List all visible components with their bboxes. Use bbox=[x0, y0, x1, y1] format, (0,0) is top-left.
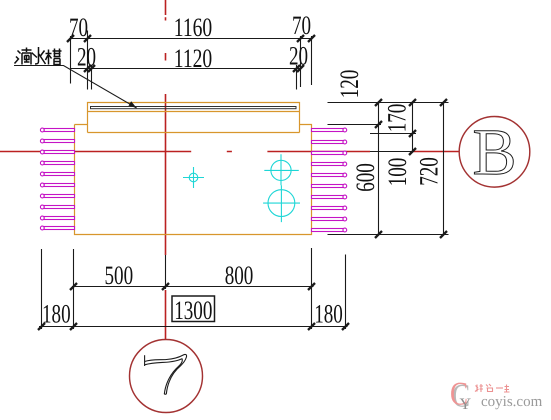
hatch tooth L2 bbox=[40, 139, 44, 143]
svg-text:70: 70 bbox=[292, 10, 311, 40]
hatch tooth R1 bbox=[343, 128, 347, 132]
label 滴水槽 strokes bbox=[15, 47, 62, 65]
hatch tooth L5 bbox=[40, 172, 44, 176]
1300 box bbox=[172, 296, 215, 322]
bottom dim texts bbox=[42, 260, 343, 329]
extension lines top bbox=[71, 31, 312, 90]
hatch tooth L8 bbox=[40, 205, 44, 209]
dim texts top bbox=[69, 10, 311, 73]
svg-text:120: 120 bbox=[334, 70, 364, 99]
svg-text:70: 70 bbox=[69, 12, 88, 42]
svg-text:20: 20 bbox=[289, 41, 308, 71]
letter B (outline) bbox=[472, 116, 516, 189]
hatch tooth L4 bbox=[40, 161, 44, 165]
hatch tooth L3 bbox=[40, 150, 44, 154]
numeral 7 (outline) bbox=[145, 354, 187, 394]
svg-text:720: 720 bbox=[414, 157, 444, 186]
svg-text:B: B bbox=[472, 116, 516, 189]
leader arrowhead bbox=[129, 101, 137, 108]
hatch tooth R7 bbox=[343, 195, 347, 199]
hatch tooth L10 bbox=[40, 226, 44, 230]
hatch tooth R9 bbox=[343, 217, 347, 221]
hatch tooth R3 bbox=[343, 151, 347, 155]
hatch tooth R4 bbox=[343, 162, 347, 166]
body outline (orange) bbox=[75, 125, 312, 235]
svg-text:1160: 1160 bbox=[174, 12, 213, 42]
svg-text:170: 170 bbox=[382, 104, 412, 133]
svg-text:180: 180 bbox=[314, 299, 343, 329]
svg-text:1120: 1120 bbox=[174, 43, 213, 73]
target symbol small (cyan) bbox=[183, 167, 204, 188]
1300 text bbox=[174, 295, 212, 325]
ticks top dims bbox=[67, 35, 315, 72]
right dim texts (rotated) bbox=[334, 70, 444, 192]
hatch tooth R5 bbox=[343, 173, 347, 177]
bottom dim line 2 (180|1300|180) bbox=[39, 326, 348, 328]
hatch tooth L9 bbox=[40, 216, 44, 220]
hatch tooth R6 bbox=[343, 184, 347, 188]
hatch teeth right (magenta) bbox=[312, 128, 347, 232]
svg-text:500: 500 bbox=[104, 260, 133, 290]
bottom dim line 1 (500|800) bbox=[72, 286, 314, 288]
hatch tooth L6 bbox=[40, 183, 44, 187]
hatch tooth L1 bbox=[40, 128, 44, 132]
leader 滴水槽 (text drawn as strokes) bbox=[14, 66, 137, 109]
bottom extension lines bbox=[42, 248, 346, 329]
hatch tooth R8 bbox=[343, 206, 347, 210]
drip groove (dark double line) bbox=[91, 107, 297, 109]
hatch tooth L7 bbox=[40, 194, 44, 198]
svg-text:180: 180 bbox=[42, 299, 71, 329]
char 槽 bbox=[46, 50, 52, 65]
right extension lines bbox=[328, 103, 449, 235]
char 滴 bbox=[15, 51, 21, 64]
hole circle 2 (cyan) bbox=[263, 185, 300, 222]
watermark 建筑一生 (pink strokes) bbox=[475, 384, 510, 392]
dim line top 2 (20|1120|20) bbox=[71, 68, 301, 70]
ticks bottom dims bbox=[38, 283, 349, 330]
hatch teeth left (magenta) bbox=[40, 128, 74, 230]
ticks right dims bbox=[375, 99, 447, 238]
centerline horizontal (red, dashed) bbox=[0, 151, 459, 153]
svg-text:Y: Y bbox=[460, 396, 472, 413]
dim line top 1 (70|1160|70) bbox=[70, 38, 313, 40]
watermark logo C (pink) bbox=[450, 377, 472, 415]
svg-text:100: 100 bbox=[382, 158, 412, 187]
hatch tooth R10 bbox=[343, 228, 347, 232]
section circle 7 (red) bbox=[130, 340, 203, 413]
section circle B (red) bbox=[459, 117, 530, 188]
svg-text:20: 20 bbox=[77, 42, 96, 72]
svg-text:1300: 1300 bbox=[174, 295, 212, 325]
watermark coyis.com (gray) bbox=[481, 394, 543, 410]
svg-text:coyis.com: coyis.com bbox=[481, 394, 543, 410]
right dim vertical lines bbox=[379, 103, 444, 235]
hole circle 1 (cyan) bbox=[264, 154, 299, 185]
hatch tooth R2 bbox=[343, 140, 347, 144]
centerline vertical (red, dashed) bbox=[165, 0, 167, 340]
svg-text:600: 600 bbox=[350, 163, 380, 192]
svg-text:800: 800 bbox=[225, 260, 254, 290]
coping panel (orange) bbox=[88, 103, 300, 133]
char 水 bbox=[32, 47, 46, 64]
